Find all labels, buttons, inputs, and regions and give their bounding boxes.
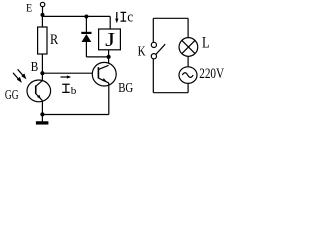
diode D cathode bar: [81, 32, 91, 34]
light arrow: [18, 69, 27, 79]
svg-text:GG: GG: [5, 87, 19, 102]
diode wire: [85, 17, 87, 32]
node B junction: [40, 71, 44, 75]
wire: [153, 92, 188, 94]
phototransistor GG body: [27, 80, 51, 102]
wire: [42, 72, 98, 74]
wire: [108, 50, 110, 66]
lamp L body: [179, 38, 198, 57]
svg-text:R: R: [50, 32, 58, 48]
transistor GG collector lead: [36, 81, 43, 87]
label Ic: [121, 10, 134, 26]
junction: [41, 13, 45, 17]
wire: [86, 56, 108, 58]
transistor GG emitter lead: [36, 94, 43, 101]
wire: [41, 73, 43, 80]
label Ib: [62, 84, 77, 97]
svg-text:L: L: [202, 34, 210, 51]
resistor R: [38, 27, 47, 54]
transistor BG base bar: [97, 67, 99, 78]
junction: [84, 15, 88, 19]
wire: [152, 59, 154, 93]
wire: [187, 56, 189, 67]
svg-text:c: c: [127, 10, 133, 26]
terminal E: [40, 2, 44, 6]
wire: [42, 7, 44, 17]
wire: [187, 83, 189, 93]
relay coil J box: [99, 29, 121, 50]
ground rail wire: [42, 114, 108, 116]
wire: [42, 15, 110, 17]
wire: [41, 101, 43, 115]
AC source sine: [182, 73, 193, 78]
svg-text:b: b: [71, 85, 77, 97]
svg-text:J: J: [105, 30, 116, 51]
transistor BG body: [92, 62, 116, 86]
svg-text:BG: BG: [118, 81, 133, 96]
switch K contact: [151, 42, 156, 47]
wire: [41, 54, 43, 73]
transistor BG collector lead: [99, 65, 109, 69]
wire: [152, 18, 154, 42]
diode D anode triangle: [82, 34, 92, 42]
diode wire: [85, 42, 87, 57]
svg-text:B: B: [31, 59, 39, 74]
transistor BG emitter lead: [99, 78, 109, 83]
wire: [153, 17, 188, 19]
svg-text:K: K: [138, 44, 146, 59]
svg-text:E: E: [26, 1, 32, 15]
lamp L cross: [182, 40, 195, 53]
current arrow Ib: [61, 75, 72, 78]
light arrow: [13, 73, 22, 83]
wire: [109, 16, 111, 29]
switch K contact: [151, 54, 156, 59]
AC source 220V body: [179, 67, 197, 84]
junction: [107, 55, 111, 59]
ground: [36, 115, 49, 123]
wire: [41, 16, 43, 27]
wire: [187, 18, 189, 37]
switch K blade: [156, 44, 165, 54]
current arrow Ic: [115, 12, 118, 23]
wire: [108, 83, 110, 115]
svg-text:220V: 220V: [199, 66, 225, 82]
transistor GG base bar: [35, 85, 37, 94]
junction: [40, 112, 44, 116]
